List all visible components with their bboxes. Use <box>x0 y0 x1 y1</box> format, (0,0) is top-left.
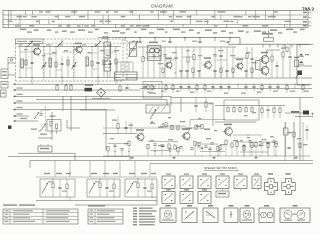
AF value labels <box>110 138 114 139</box>
switch position box S1 <box>162 176 175 189</box>
transistor T5 <box>237 63 243 69</box>
wire tone strip bottom <box>36 200 157 202</box>
FM output drop wires <box>31 78 33 85</box>
switch position box S3 <box>198 176 211 189</box>
transistor T2 <box>76 46 82 52</box>
capacitor C71 <box>287 146 290 148</box>
capacitor C70 <box>305 128 308 130</box>
transistor T9 <box>183 133 190 140</box>
DIN connector (a) <box>264 179 277 195</box>
tuning arrow 2 <box>57 41 63 47</box>
resistor R23 <box>119 86 121 91</box>
wire right col 1 <box>282 44 284 52</box>
FM value labels <box>24 49 28 50</box>
wire gang link <box>126 40 128 80</box>
coil L1 <box>21 59 24 68</box>
resistor R58 <box>286 47 288 52</box>
wire diamond tail <box>100 97 102 99</box>
pinout box 4 <box>224 208 238 223</box>
volume pot <box>146 105 170 113</box>
wire drop g <box>134 161 136 178</box>
tone rail right components <box>261 106 263 109</box>
plus terminal <box>303 111 309 115</box>
wire AM rail 2 <box>140 88 312 90</box>
wire table link <box>69 197 71 201</box>
gang dashed link <box>30 42 138 44</box>
IF stage components <box>142 57 144 62</box>
resistor R20 <box>56 85 58 90</box>
oscillator coil S3 <box>104 61 111 71</box>
capacitor C1a <box>10 58 12 61</box>
right column drops <box>284 122 286 161</box>
FM interconnect wires <box>20 51 32 53</box>
capacitor C5 <box>60 62 63 64</box>
AF stage components <box>107 146 109 151</box>
transistor T8 <box>137 134 144 141</box>
voltage table 1 <box>3 209 78 224</box>
wire af rail2 <box>103 127 200 129</box>
resistor R22 <box>70 85 72 90</box>
electrolytic C64 <box>299 54 303 56</box>
wire loop bend b <box>35 93 37 100</box>
resistor R4 <box>67 60 69 65</box>
bandfilter block <box>115 72 138 80</box>
tone control cell 2 (potentiometer network) <box>87 179 120 197</box>
switch position box S7 <box>162 192 175 204</box>
resistor R49 <box>293 132 295 137</box>
switch position box S5 <box>234 176 247 189</box>
output stage lower components <box>219 146 221 150</box>
AM rail hanging components <box>145 84 146 85</box>
transistor T6 <box>261 56 269 64</box>
trimmer C7 <box>72 64 75 66</box>
label R40 <box>112 120 117 121</box>
wire antenna feed 1 <box>8 57 16 59</box>
antenna terminal box A1 <box>1 69 8 79</box>
FM junction dots <box>25 46 26 47</box>
resistor R68 on bus <box>103 37 108 39</box>
coil L2 <box>49 58 52 67</box>
footnote list <box>133 208 137 209</box>
trimmer C3 <box>42 64 45 66</box>
pinout box 2 <box>182 208 197 223</box>
wire drop b <box>54 161 56 178</box>
component reference text row <box>20 29 26 31</box>
transistor T7 <box>261 67 269 75</box>
resistor R8 <box>115 59 117 64</box>
svg-text:SPELER SET PM SINDO: SPELER SET PM SINDO <box>204 166 238 170</box>
transistor T10 <box>225 128 233 136</box>
switch position box S6 <box>252 176 261 189</box>
tuning arrow 1 <box>27 41 33 47</box>
driver transformer S5 <box>256 61 261 70</box>
switch S2b <box>34 113 39 120</box>
wire bottom left vertical <box>153 205 155 207</box>
label 562 <box>291 111 299 113</box>
preset R60 <box>298 71 303 76</box>
wire bus step <box>239 38 241 45</box>
wire right col 2 <box>289 44 291 55</box>
resistor R64 <box>299 143 301 148</box>
wire tone strip top <box>36 176 157 178</box>
label center marks <box>150 123 155 124</box>
wire IF rail <box>138 46 236 48</box>
switch position box S9 <box>198 192 211 204</box>
switch position box S8 <box>180 192 193 204</box>
wire right link <box>285 112 303 114</box>
signal buses with arrows <box>13 89 15 91</box>
wire IF emitter rail <box>125 77 312 79</box>
capacitor C2 <box>30 61 33 63</box>
wire cluster right <box>51 112 53 140</box>
wire drop h <box>149 164 151 177</box>
resistor R21 <box>65 85 67 90</box>
wire supply bus right <box>228 43 310 45</box>
electrolytic C45 <box>284 128 289 135</box>
wire drop a <box>29 161 31 169</box>
wire output collector <box>266 50 268 53</box>
wire bus bend 6 <box>212 103 214 126</box>
wire T10 rail <box>215 121 256 123</box>
wire antenna feed 2 <box>8 62 16 64</box>
wire long 4 <box>150 163 313 165</box>
FM section divider 2 <box>73 43 75 81</box>
diode bridge / mixer diamond <box>97 88 106 97</box>
wire mid rail 2 <box>171 97 313 99</box>
signal bus 7 <box>13 120 15 122</box>
driver stage components <box>165 123 167 127</box>
switch mechanical link <box>45 106 47 132</box>
wire lower link b <box>233 134 262 136</box>
wire into T8 <box>130 122 132 134</box>
coil L3 <box>86 57 89 66</box>
dial band right row labels <box>303 12 307 14</box>
pinout box 6 <box>259 208 274 223</box>
tone network box <box>224 100 259 120</box>
FM section divider 1 <box>43 43 45 81</box>
voltage table 2 <box>88 209 123 224</box>
tone network resistors <box>227 106 229 108</box>
resistor R7 <box>103 60 105 65</box>
cluster leads <box>50 131 52 134</box>
bandfilter top wires <box>116 62 118 72</box>
wire loop line b <box>36 99 167 101</box>
IF lower components <box>162 68 164 72</box>
wire long 2 <box>8 156 130 158</box>
wire FM bottom rail <box>18 77 121 79</box>
wire drop e <box>104 161 106 178</box>
pinout box 3 <box>203 208 218 223</box>
wire FM top rail <box>18 46 121 48</box>
transistor T1 <box>34 48 41 55</box>
svg-text:DIAGRAM: DIAGRAM <box>151 4 173 9</box>
AF ground symbols <box>131 156 133 158</box>
switch S2a <box>40 124 46 131</box>
oscillator coil S2 <box>104 42 111 58</box>
DIN connector (b+g) <box>282 179 295 195</box>
wire drop c <box>69 161 71 178</box>
wire lower rail <box>103 133 137 135</box>
AM rail value labels <box>147 92 151 93</box>
wire bus bend 7 <box>105 110 107 151</box>
fuse F1 <box>264 38 274 41</box>
tuning gang C20 <box>130 42 137 49</box>
tone control cell 1 (potentiometer network) <box>40 179 75 197</box>
AF extra components <box>161 144 164 146</box>
wire mid link <box>80 109 115 111</box>
capacitor C38 <box>194 104 197 106</box>
wire bus bend 4 <box>170 96 172 105</box>
capacitor C61 <box>288 55 291 57</box>
net label B <box>8 126 11 129</box>
pinout box 1 <box>160 208 176 223</box>
wire antenna feed 3 <box>8 74 16 76</box>
wire drop d <box>89 161 91 178</box>
electrolytic C65 <box>299 61 303 63</box>
FM top labels <box>19 44 22 45</box>
capacitor C58 <box>275 64 278 66</box>
pinout box 7 <box>280 208 310 223</box>
capacitor C41 <box>124 126 127 128</box>
wire bus bend 5 <box>166 100 168 105</box>
resistor R57 <box>271 56 273 61</box>
antenna terminal box A2 <box>1 82 8 89</box>
cluster labels <box>31 129 37 130</box>
wire mid drop x181 <box>180 98 182 113</box>
AF interconnect wires <box>108 143 129 145</box>
capacitor C10 <box>108 62 111 64</box>
pinout box 5 <box>240 208 254 223</box>
svg-text:+: + <box>311 112 314 117</box>
wire cluster bracket <box>66 120 68 128</box>
resistor R38 <box>205 102 207 107</box>
wire bus bend 2 <box>70 96 72 131</box>
AF switch cluster box <box>47 120 61 132</box>
tuning arrow 3 <box>95 41 101 47</box>
supply bus ticks right <box>262 44 264 47</box>
IF interconnect wires <box>143 57 160 59</box>
wire long vertical left <box>17 96 19 153</box>
ferrite rod aerial <box>85 88 93 92</box>
wire AM rail <box>13 83 15 85</box>
wire T9 T10 link <box>190 119 225 121</box>
resistor R6 <box>91 61 93 66</box>
wire drop f <box>119 161 121 178</box>
driver stage labels <box>168 117 171 118</box>
dial cord band ticks and labels <box>10 10 12 19</box>
capacitor C33 <box>39 113 42 115</box>
FM box internal wires <box>19 47 21 78</box>
wire right edge <box>296 44 298 85</box>
wire supply bus left <box>113 37 240 39</box>
IF transformer S1 <box>148 46 162 61</box>
transistor T3 <box>166 62 172 68</box>
switch position box S4 <box>216 176 229 189</box>
shielded block <box>143 82 162 99</box>
wire bus bend 1 <box>62 96 64 111</box>
wire long 3 <box>30 160 313 162</box>
parts list header <box>3 204 17 205</box>
tone control cell 3 (potentiometer network) <box>125 179 157 197</box>
resistor R3 <box>55 62 57 67</box>
AF junction dots <box>114 151 115 152</box>
crystal box <box>38 146 52 152</box>
resistor R1 <box>25 60 27 65</box>
shallow connector box <box>216 191 229 197</box>
capacitor C9 <box>96 61 99 63</box>
wire bus bend 8 <box>299 98 301 161</box>
wire lower link a <box>160 125 186 127</box>
FM tuner label box <box>16 39 44 43</box>
connector box left <box>1 90 7 97</box>
capacitor C30 <box>125 86 128 88</box>
bus drop wires <box>124 38 126 41</box>
dial cord band frame <box>3 10 308 27</box>
wire long 1 <box>18 152 75 154</box>
transistor T4 <box>205 62 212 69</box>
IF transformer label <box>149 42 158 44</box>
resistor R55 <box>282 52 284 57</box>
wire tone rail <box>215 105 285 107</box>
electrolytic C62 <box>295 60 299 67</box>
IF value labels <box>146 52 151 53</box>
resistor R26 <box>50 122 52 127</box>
switch position box S2 <box>180 176 193 189</box>
wire bus bend 3 <box>85 96 87 110</box>
resistor R40 <box>117 124 119 129</box>
wire AF bottom rail <box>103 155 310 157</box>
wire coil stack <box>106 39 108 42</box>
wire loop line a <box>36 92 167 94</box>
FM tuner dashed enclosure <box>43 38 123 40</box>
